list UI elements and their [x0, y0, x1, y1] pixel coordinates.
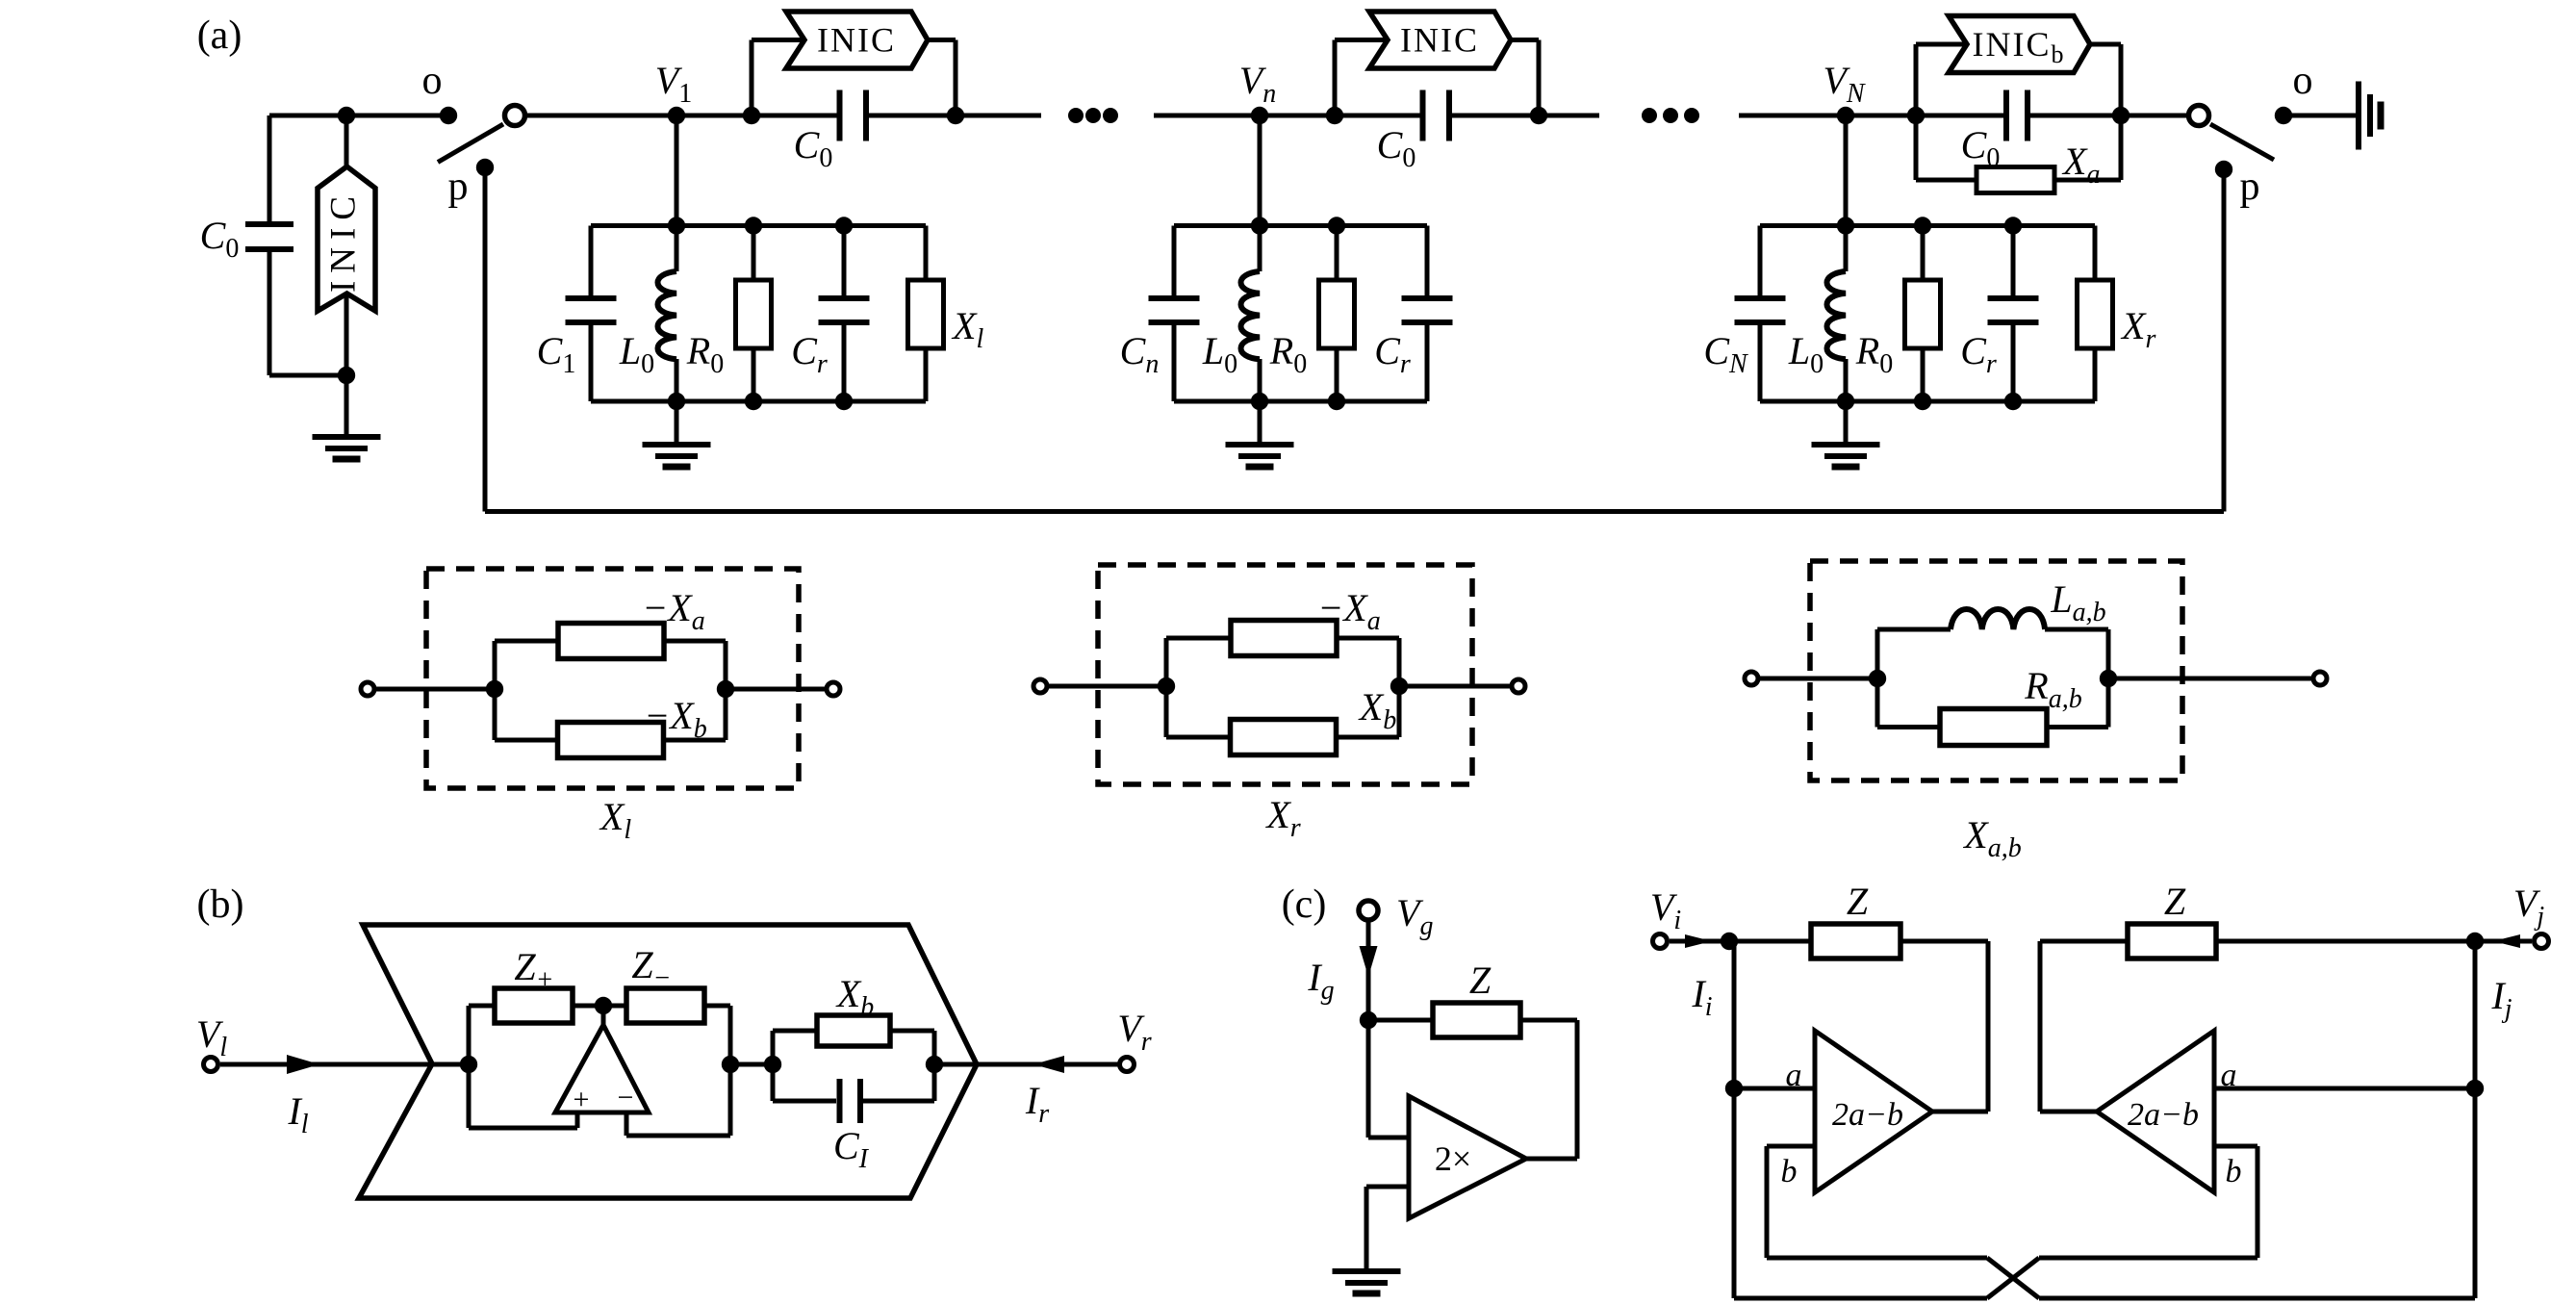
svg-text:o: o: [2293, 59, 2313, 103]
svg-text:2a−b: 2a−b: [1832, 1097, 1903, 1133]
svg-text:a: a: [2221, 1058, 2237, 1093]
svg-text:Z: Z: [1847, 880, 1869, 923]
svg-text:+: +: [574, 1084, 590, 1115]
svg-text:INIC: INIC: [1400, 21, 1479, 60]
svg-text:Z: Z: [2164, 880, 2186, 923]
svg-text:o: o: [422, 59, 443, 103]
svg-text:(a): (a): [197, 13, 242, 58]
svg-text:b: b: [1781, 1154, 1798, 1189]
svg-text:(b): (b): [197, 882, 244, 927]
svg-text:Z: Z: [1469, 959, 1492, 1002]
svg-text:INIC: INIC: [323, 189, 363, 293]
svg-text:b: b: [2226, 1154, 2242, 1189]
svg-text:2×: 2×: [1435, 1139, 1471, 1178]
svg-text:p: p: [448, 165, 469, 209]
svg-text:a: a: [1786, 1058, 1802, 1093]
svg-text:(c): (c): [1282, 882, 1327, 927]
svg-text:INIC: INIC: [817, 21, 896, 60]
svg-text:p: p: [2240, 165, 2260, 209]
svg-text:2a−b: 2a−b: [2128, 1097, 2199, 1133]
svg-text:−: −: [618, 1082, 634, 1113]
